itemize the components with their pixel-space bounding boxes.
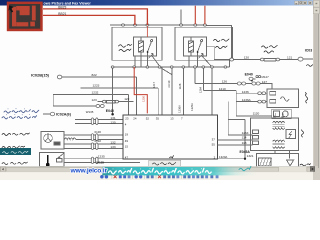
svg-text:24: 24 (133, 116, 137, 120)
svg-text:1235: 1235 (98, 154, 105, 158)
svg-text:1236: 1236 (242, 90, 249, 94)
svg-text:1250: 1250 (142, 96, 146, 102)
svg-text:1321: 1321 (247, 154, 254, 158)
svg-text:120: 120 (244, 56, 249, 60)
svg-text:15: 15 (125, 145, 129, 149)
svg-text:M127: M127 (262, 75, 270, 79)
svg-text:1236A: 1236A (242, 98, 252, 102)
svg-text:IC02A(6): IC02A(6) (56, 112, 72, 116)
svg-text:1120: 1120 (253, 111, 260, 115)
svg-text:BB23: BB23 (58, 6, 66, 10)
svg-text:127: 127 (262, 80, 267, 84)
svg-text:121: 121 (287, 56, 292, 60)
svg-text:130: 130 (110, 121, 115, 125)
svg-text:W135: W135 (86, 110, 94, 114)
svg-text:37: 37 (212, 138, 216, 142)
svg-text:1126: 1126 (178, 83, 182, 89)
svg-text:1264: 1264 (242, 131, 249, 135)
svg-text:0130: 0130 (95, 130, 102, 134)
svg-text:IC02B(15): IC02B(15) (31, 72, 50, 77)
svg-text:1320A: 1320A (219, 155, 227, 159)
svg-text:35: 35 (156, 116, 160, 120)
svg-text:131: 131 (110, 116, 115, 120)
svg-text:0132: 0132 (95, 139, 102, 143)
svg-text:113: 113 (242, 141, 247, 145)
svg-text:1325A: 1325A (190, 103, 194, 111)
svg-text:133: 133 (110, 145, 115, 149)
svg-text:1223: 1223 (93, 83, 100, 87)
svg-text:55: 55 (212, 142, 216, 146)
svg-text:IC03: IC03 (305, 48, 312, 52)
svg-text:47: 47 (125, 155, 129, 159)
svg-text:1217: 1217 (152, 82, 156, 88)
svg-text:1264: 1264 (199, 87, 203, 93)
svg-text:E040: E040 (245, 72, 253, 76)
svg-text:49: 49 (125, 139, 129, 143)
svg-text:114: 114 (242, 136, 247, 140)
svg-text:122: 122 (124, 97, 129, 101)
svg-text:ows Picture and Fax Viewer: ows Picture and Fax Viewer (44, 1, 92, 5)
svg-text:E045A: E045A (240, 150, 251, 154)
svg-text:1236A: 1236A (178, 105, 182, 113)
svg-text:19: 19 (125, 133, 129, 137)
svg-text:BB21: BB21 (58, 12, 66, 16)
svg-text:52: 52 (146, 116, 150, 120)
svg-text:822: 822 (92, 73, 97, 77)
svg-text:1210: 1210 (219, 87, 226, 91)
svg-text:E040: E040 (106, 109, 114, 113)
svg-text:13: 13 (170, 116, 174, 120)
svg-text:123: 123 (92, 98, 97, 102)
svg-text:M125: M125 (96, 160, 104, 164)
svg-text:www.jelco.ir: www.jelco.ir (70, 168, 108, 175)
svg-text:CC10: CC10 (167, 80, 171, 87)
svg-text:23: 23 (125, 116, 129, 120)
svg-text:1232: 1232 (92, 91, 99, 95)
svg-text:126: 126 (222, 80, 227, 84)
